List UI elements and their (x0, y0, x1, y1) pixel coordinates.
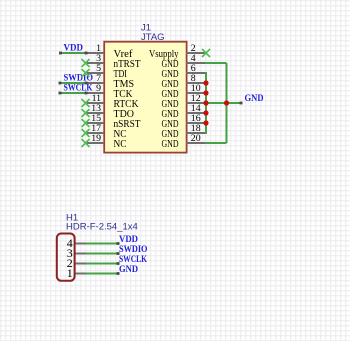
no-connect X pin 15 (82, 119, 90, 127)
net label SWCLK (H1) (119, 254, 147, 265)
junction GND bus (224, 100, 229, 105)
wire pin4 to GND bus (205, 62, 227, 64)
wire pin6 stub (205, 72, 207, 74)
wire H1 pin4 VDD (86, 242, 120, 245)
pin 16 GND (162, 113, 206, 130)
svg-text:20: 20 (191, 133, 201, 144)
svg-text:GND: GND (162, 139, 179, 150)
svg-text:HDR-F-2.54_1x4: HDR-F-2.54_1x4 (66, 221, 138, 232)
connector J1 JTAG (85, 23, 205, 153)
pin 3 nTRST (85, 53, 141, 70)
pin 20 GND (162, 133, 206, 150)
junction pin10 (203, 90, 208, 95)
net label VDD (64, 42, 84, 53)
value JTAG (141, 32, 165, 43)
pin 12 GND (162, 93, 206, 110)
net label GND (H1) (119, 264, 138, 275)
no-connect X pin 13 (82, 109, 90, 117)
svg-text:VDD: VDD (64, 42, 84, 53)
junction pin8 (203, 80, 208, 85)
net label SWDIO (H1) (119, 244, 148, 255)
pin 8 GND (162, 73, 206, 90)
pin 13 TDO (85, 103, 134, 120)
connector H1 body (57, 234, 75, 281)
wire H1 pin2 SWCLK (86, 262, 120, 265)
designator J1 (141, 23, 151, 34)
net label GND (245, 93, 264, 104)
connector J1 body (104, 42, 186, 153)
pin 4 GND (162, 53, 206, 70)
wire SWCLK to pin9 (59, 92, 88, 95)
wire pin20 to GND bus (205, 142, 227, 144)
wire H1 pin3 SWDIO (86, 252, 120, 255)
net label SWDIO (64, 72, 94, 83)
wire pin18 stub (205, 132, 207, 134)
pin 11 RTCK (85, 93, 139, 110)
wire GND bus inner vertical (205, 73, 207, 133)
junction pin12 (203, 100, 208, 105)
pin 17 NC (85, 123, 127, 140)
wire VDD to pin1 (59, 52, 88, 55)
pin 14 GND (162, 103, 206, 120)
wire SWDIO to pin7 (59, 82, 88, 85)
no-connect X pin 17 (82, 129, 90, 137)
pin 2 Vsupply (149, 43, 205, 60)
no-connect X pin 5 (82, 69, 90, 77)
pin 7 TMS (85, 73, 134, 90)
wire GND bus outer vertical (226, 63, 228, 143)
pin 2 (67, 256, 86, 270)
pin 10 GND (162, 83, 206, 100)
svg-text:1: 1 (67, 266, 73, 280)
svg-text:19: 19 (91, 133, 101, 144)
no-connect X pin 3 (82, 59, 90, 67)
pin 15 nSRST (85, 113, 141, 130)
wire pin14 stub (205, 112, 207, 114)
net label VDD (H1) (119, 234, 138, 245)
junction pin16 (203, 120, 208, 125)
value HDR-F-2.54_1x4 (66, 221, 138, 232)
svg-text:NC: NC (114, 139, 127, 150)
pin 19 NC (85, 133, 127, 150)
pin 3 (67, 246, 86, 260)
pin 5 TDI (85, 63, 127, 80)
no-connect X pin 19 (82, 139, 90, 147)
svg-text:GND: GND (119, 264, 138, 275)
no-connect X pin 11 (82, 99, 90, 107)
pin 4 (67, 236, 86, 250)
wire pin8 stub (205, 82, 207, 84)
svg-text:SWCLK: SWCLK (64, 82, 93, 93)
wire pin12 to GND label (205, 102, 243, 105)
wire H1 pin1 GND (86, 272, 120, 275)
pin 18 GND (162, 123, 206, 140)
junction pin14 (203, 110, 208, 115)
pin 1 Vref (85, 43, 133, 60)
pin 9 TCK (85, 83, 133, 100)
connector H1 (57, 212, 138, 280)
pin 6 GND (162, 63, 206, 80)
designator H1 (66, 212, 78, 223)
wire pin10 stub (205, 92, 207, 94)
svg-text:GND: GND (245, 93, 264, 104)
net label SWCLK (64, 82, 93, 93)
pin 1 (67, 266, 86, 280)
wire pin16 stub (205, 122, 207, 124)
no-connect X pin 2 (202, 49, 210, 57)
